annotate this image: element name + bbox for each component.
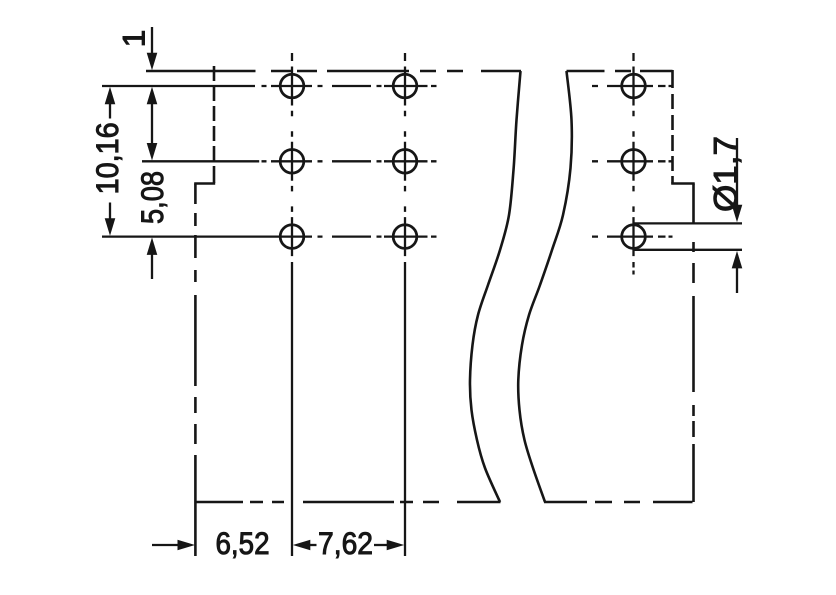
hole bottom tangent extension line <box>633 249 742 251</box>
hole col3 row3 Ø1.7 <box>622 225 646 249</box>
dimension 10,16 line upper stub <box>109 103 111 119</box>
dimension 1mm lower arrowhead <box>147 87 158 105</box>
dimension 7,62 right line <box>374 544 388 546</box>
dimension 10,16 upper arrowhead <box>105 87 116 105</box>
dimension 5,08 lower arrowhead <box>147 237 158 255</box>
bottom edge (dashed) y=502 <box>196 501 693 504</box>
hole col2 row3 Ø1.7 <box>393 225 417 249</box>
svg-text:Ø1,7: Ø1,7 <box>707 136 744 212</box>
dimension 6,52 left tail <box>152 544 179 546</box>
dimension Ø1,7 upper line <box>736 138 738 206</box>
dimension 7,62 left arrowhead <box>293 540 311 551</box>
break line left (S-curve) <box>470 71 521 502</box>
centerline column 2 x=405 <box>404 53 406 556</box>
dimension 10,16 lower arrowhead <box>105 218 116 236</box>
break line right (S-curve) <box>518 71 572 502</box>
hole top tangent extension line <box>633 222 742 224</box>
svg-text:7,62: 7,62 <box>318 525 373 561</box>
hole col1 row3 Ø1.7 <box>280 225 304 249</box>
centerline column 3 x=633.5 <box>632 53 634 275</box>
svg-text:5,08: 5,08 <box>134 171 170 224</box>
svg-text:6,52: 6,52 <box>216 525 270 561</box>
hole col3 row1 Ø1.7 <box>622 74 646 98</box>
dimension 7,62 right arrowhead <box>387 540 405 551</box>
centerline column 1 x=292 <box>291 53 293 556</box>
left edge x=195.4 <box>194 184 197 557</box>
right edge x=693.5 <box>692 184 695 503</box>
part outline top edge y=71 <box>146 70 673 73</box>
dimension 1mm / 5,08 shared tail <box>151 103 153 144</box>
svg-text:1: 1 <box>116 30 152 48</box>
dimension 5,08 upper arrowhead <box>147 143 158 161</box>
dimension 5,08 lower tail <box>151 254 153 279</box>
centerline row 2 y=161.3 <box>142 160 673 162</box>
centerline row 3 y=236.6 <box>102 235 673 237</box>
dimension 7,62 left line <box>309 544 317 546</box>
left hidden edge (dashed) x=214 <box>213 66 216 183</box>
hole col1 row2 Ø1.7 <box>280 150 304 174</box>
centerline row 1 y=86 <box>102 85 673 87</box>
hole col2 row2 Ø1.7 <box>393 150 417 174</box>
dimension Ø1,7 lower tail <box>736 268 738 294</box>
hole col3 row2 Ø1.7 <box>622 150 646 174</box>
right step ledge y=183.5 <box>671 182 695 185</box>
right hidden edge (dashed) x=672.5 <box>671 70 674 184</box>
dimension Ø1,7 lower arrowhead <box>732 251 743 269</box>
svg-text:10,16: 10,16 <box>89 122 125 194</box>
dimension 1mm upper arrowhead <box>147 53 158 70</box>
hole col1 row1 Ø1.7 <box>280 74 304 98</box>
dimension 1mm upper arrow line <box>151 27 153 54</box>
dimension 6,52 left arrowhead <box>178 540 196 551</box>
dimension 10,16 line lower stub <box>109 203 111 220</box>
dimension Ø1,7 upper arrowhead <box>732 205 743 223</box>
hole col2 row1 Ø1.7 <box>393 74 417 98</box>
left step ledge y=183.5 <box>194 182 215 185</box>
